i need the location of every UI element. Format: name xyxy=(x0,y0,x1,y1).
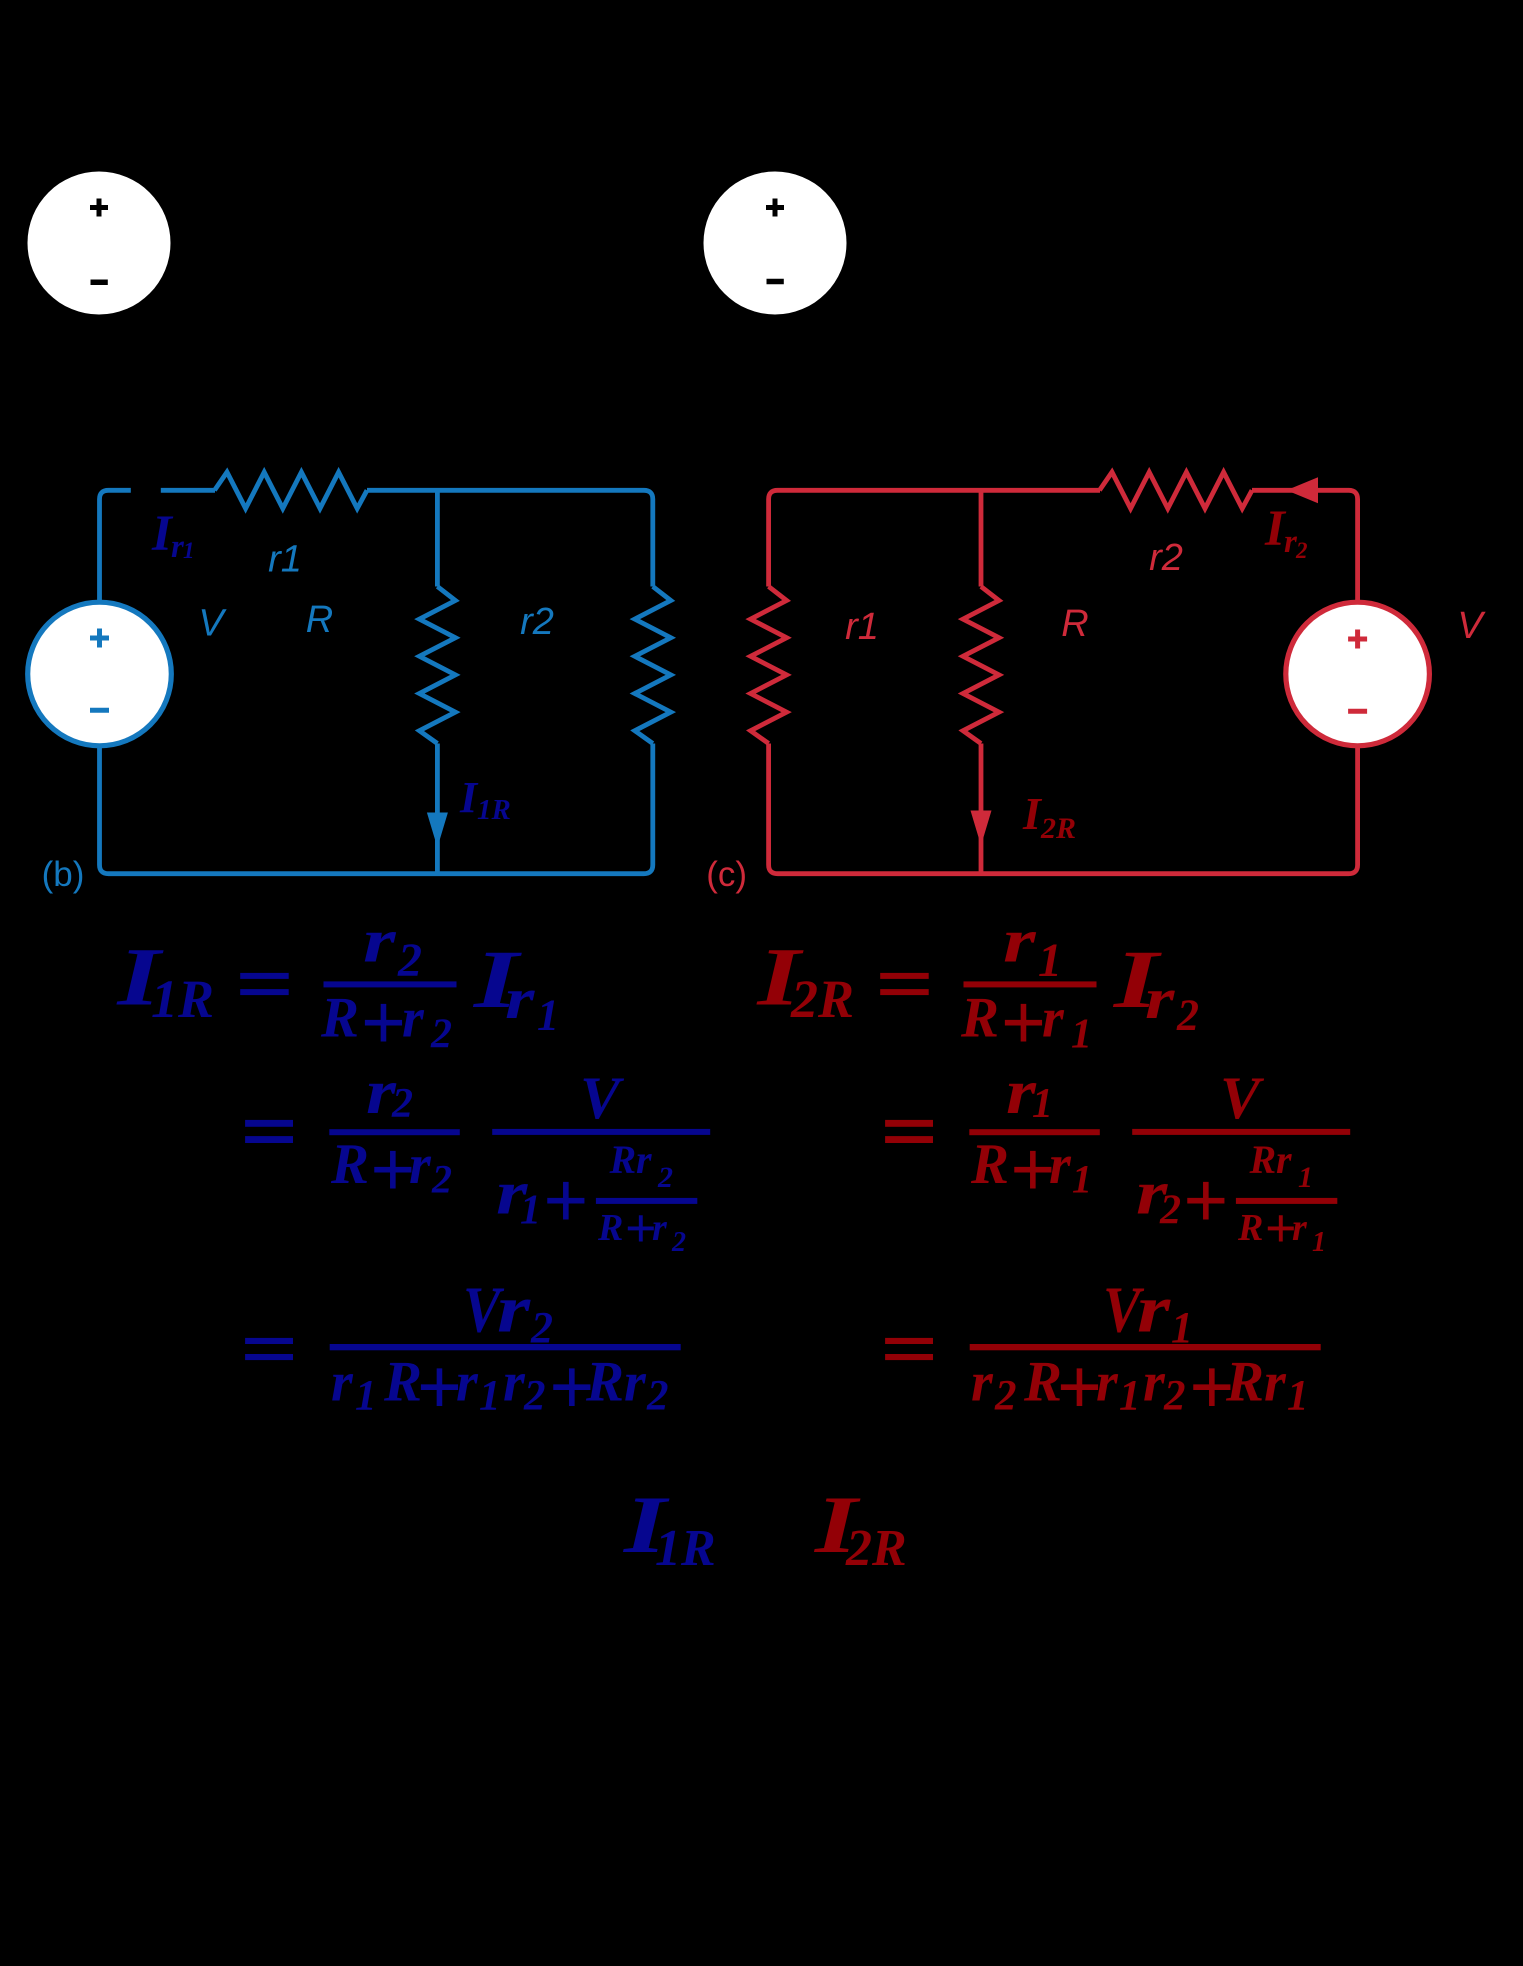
current arrow I_r2 (c, pointing left) xyxy=(1287,477,1319,503)
svg-text:2: 2 xyxy=(431,1157,452,1202)
svg-text:1: 1 xyxy=(355,1373,377,1420)
voltage source V (c) xyxy=(1286,602,1430,746)
svg-text:r: r xyxy=(1276,1137,1292,1182)
svg-text:+: + xyxy=(542,1157,588,1245)
svg-text:I: I xyxy=(459,773,479,822)
svg-text:2: 2 xyxy=(1295,538,1308,563)
resistor r1 (c, left vertical zigzag) xyxy=(751,587,787,744)
wire: source top lead + top-left corner (b) xyxy=(100,490,131,601)
wire: middle branch top (c) xyxy=(979,490,984,586)
svg-text:+: + xyxy=(1182,1157,1228,1245)
svg-text:r: r xyxy=(505,966,535,1031)
svg-text:2: 2 xyxy=(430,1012,452,1058)
wire: middle branch top (b) xyxy=(435,490,440,586)
resistor r2 (c, horizontal zigzag) xyxy=(1100,472,1253,508)
svg-text:r1: r1 xyxy=(845,606,879,648)
svg-text:(c): (c) xyxy=(706,855,747,894)
svg-text:R: R xyxy=(320,987,359,1050)
equation line 3 (blue) xyxy=(245,1271,681,1432)
equation line 3 (red) xyxy=(885,1271,1321,1432)
svg-text:R: R xyxy=(597,1207,623,1249)
equation line 2 (red) xyxy=(885,1057,1350,1260)
svg-text:r: r xyxy=(1042,988,1065,1050)
svg-text:1R: 1R xyxy=(477,794,511,826)
voltage source V2 (circuit a, white circle) xyxy=(704,172,847,315)
svg-text:r: r xyxy=(652,1207,668,1249)
equation line 2 (blue) xyxy=(245,1057,710,1260)
svg-text:2: 2 xyxy=(1159,1188,1181,1234)
svg-text:1: 1 xyxy=(1312,1227,1326,1258)
voltage source V1 (circuit a, white circle) xyxy=(28,172,171,315)
svg-text:2: 2 xyxy=(391,1081,413,1127)
svg-text:V: V xyxy=(198,603,227,645)
svg-text:1: 1 xyxy=(479,1373,501,1420)
svg-text:1: 1 xyxy=(1032,1081,1053,1127)
svg-text:r: r xyxy=(409,1134,432,1196)
equation line 1 (blue) xyxy=(116,906,559,1067)
svg-text:r: r xyxy=(1049,1134,1072,1196)
svg-text:(b): (b) xyxy=(42,855,85,894)
svg-text:R: R xyxy=(1237,1207,1263,1249)
wire: from r2 to top-right corner down to source (c) xyxy=(1252,490,1358,600)
svg-text:+: + xyxy=(1056,1344,1102,1432)
svg-text:R: R xyxy=(1061,603,1088,645)
svg-text:r: r xyxy=(624,1352,647,1414)
svg-text:1: 1 xyxy=(183,538,195,563)
svg-text:2: 2 xyxy=(1163,1373,1186,1420)
svg-text:+: + xyxy=(1000,979,1046,1067)
svg-text:I: I xyxy=(1022,788,1043,839)
svg-text:r: r xyxy=(971,1352,994,1414)
wire: middle branch bottom with current arrow I2R (c) xyxy=(979,744,984,874)
wire: top-left corner + top wire + r2 lead-in (c) xyxy=(769,490,1100,586)
svg-text:2R: 2R xyxy=(790,969,854,1029)
svg-text:R: R xyxy=(960,987,999,1050)
svg-text:r: r xyxy=(503,1352,526,1414)
svg-text:r1: r1 xyxy=(268,539,302,581)
svg-text:R: R xyxy=(306,599,333,641)
wire: right side down + bottom wire + left side up to source (b) xyxy=(100,744,653,874)
svg-text:2R: 2R xyxy=(845,1520,907,1577)
svg-text:V: V xyxy=(1457,605,1486,647)
resistor R (c, middle vertical zigzag) xyxy=(963,587,999,744)
svg-text:R: R xyxy=(970,1133,1009,1196)
svg-text:2: 2 xyxy=(657,1161,673,1194)
svg-text:1: 1 xyxy=(1119,1373,1141,1420)
svg-text:2R: 2R xyxy=(1040,812,1076,845)
svg-text:2: 2 xyxy=(1176,991,1199,1040)
wire: top wire from r1 to top-right corner, down to r2 (b) xyxy=(367,490,653,586)
svg-text:1R: 1R xyxy=(655,1520,716,1577)
resistor R (b, middle vertical zigzag) xyxy=(419,587,455,744)
svg-text:1: 1 xyxy=(1071,1012,1092,1058)
svg-text:2: 2 xyxy=(646,1373,669,1420)
svg-text:R: R xyxy=(1225,1351,1264,1414)
svg-text:r: r xyxy=(1264,1352,1287,1414)
svg-text:1R: 1R xyxy=(151,969,214,1029)
svg-text:1: 1 xyxy=(1072,1157,1092,1202)
svg-text:r2: r2 xyxy=(1149,537,1183,579)
resistor r2 (b, right vertical zigzag) xyxy=(635,587,671,744)
svg-text:r: r xyxy=(1143,1352,1166,1414)
wire: top segment right of current-arrow gap (b) xyxy=(161,488,215,493)
svg-text:V: V xyxy=(580,1065,625,1131)
svg-text:r: r xyxy=(402,988,425,1050)
svg-text:r: r xyxy=(1137,1271,1171,1347)
svg-text:r: r xyxy=(1003,906,1037,975)
svg-text:r: r xyxy=(1145,966,1175,1031)
svg-text:1: 1 xyxy=(537,991,559,1040)
wire: middle branch bottom with current arrow I1R (b) xyxy=(435,744,440,874)
svg-text:R: R xyxy=(585,1351,624,1414)
svg-text:1: 1 xyxy=(1287,1373,1309,1420)
svg-text:R: R xyxy=(609,1137,637,1182)
svg-text:r: r xyxy=(497,1271,531,1347)
resistor r1 (b, horizontal zigzag) xyxy=(215,472,368,508)
svg-text:1: 1 xyxy=(520,1188,541,1234)
svg-text:r: r xyxy=(363,906,397,975)
svg-text:r: r xyxy=(456,1352,479,1414)
svg-text:1: 1 xyxy=(1298,1161,1313,1194)
voltage source V (b) xyxy=(28,602,172,746)
svg-text:2: 2 xyxy=(671,1227,686,1258)
svg-text:r: r xyxy=(1292,1207,1308,1249)
svg-text:r: r xyxy=(331,1352,354,1414)
svg-text:r: r xyxy=(1096,1352,1119,1414)
svg-text:V: V xyxy=(1220,1065,1265,1131)
svg-text:+: + xyxy=(416,1344,462,1432)
inline label I_1R (bottom sentence) xyxy=(623,1479,716,1577)
svg-text:r: r xyxy=(636,1137,652,1182)
wire: left side down + bottom wire + right side up to source (c) xyxy=(769,744,1358,874)
svg-text:r2: r2 xyxy=(520,601,554,643)
svg-text:R: R xyxy=(1249,1137,1277,1182)
svg-text:+: + xyxy=(360,979,406,1067)
svg-text:2: 2 xyxy=(994,1373,1017,1420)
svg-text:2: 2 xyxy=(523,1373,546,1420)
equation line 1 (red) xyxy=(756,906,1199,1067)
inline label I_2R (bottom sentence) xyxy=(814,1479,907,1577)
svg-text:R: R xyxy=(330,1133,369,1196)
